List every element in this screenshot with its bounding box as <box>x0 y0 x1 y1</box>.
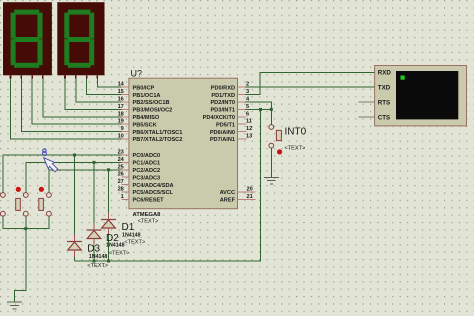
svg-text:1N4148: 1N4148 <box>122 233 141 239</box>
svg-text:21: 21 <box>247 194 253 200</box>
display pin stubs <box>11 75 98 78</box>
svg-text:28: 28 <box>118 187 124 193</box>
svg-text:25: 25 <box>118 164 124 170</box>
svg-text:PD5/T1: PD5/T1 <box>216 122 235 128</box>
right pin numbers <box>246 82 253 200</box>
terminal RTS stub <box>359 101 375 103</box>
svg-text:23: 23 <box>118 150 124 156</box>
svg-text:PD0/RXD: PD0/RXD <box>211 85 235 91</box>
svg-text:RTS: RTS <box>378 100 390 107</box>
svg-text:TXD: TXD <box>378 85 391 92</box>
svg-text:PD1/TXD: PD1/TXD <box>211 93 235 99</box>
svg-text:CTS: CTS <box>378 114 390 121</box>
wire D1 drop <box>108 170 110 213</box>
wire disp1 pin to PB7 <box>11 75 122 139</box>
svg-text:<TEXT>: <TEXT> <box>285 145 306 151</box>
junction node PD3/PD2 <box>270 108 273 111</box>
wire disp2 pin to PB1 <box>87 75 122 94</box>
svg-text:26: 26 <box>118 172 124 178</box>
junction node row25/D1 <box>107 168 110 171</box>
chip right pin stubs <box>238 87 256 199</box>
svg-text:<TEXT>: <TEXT> <box>124 240 145 246</box>
wire bottom rail to PD3 <box>75 109 261 261</box>
wire PC0 row to buttons <box>3 109 261 302</box>
svg-text:PC3/ADC3: PC3/ADC3 <box>133 175 161 181</box>
svg-text:PB7/XTAL2/TOSC2: PB7/XTAL2/TOSC2 <box>133 137 183 143</box>
svg-text:24: 24 <box>118 157 125 163</box>
svg-text:PB2/SS/OC1B: PB2/SS/OC1B <box>133 100 170 106</box>
diode D1 <box>101 213 116 235</box>
junction node row23/D3 <box>73 154 76 157</box>
svg-text:18: 18 <box>118 111 124 117</box>
svg-text:PD4/XCK/T0: PD4/XCK/T0 <box>203 115 235 121</box>
svg-text:<TEXT>: <TEXT> <box>87 263 108 269</box>
svg-text:PC5/ADC5/SCL: PC5/ADC5/SCL <box>133 190 174 196</box>
svg-text:D3: D3 <box>87 243 100 254</box>
wire to ground left <box>15 229 26 302</box>
button SW1 (partial, left edge) <box>1 193 6 217</box>
svg-text:PB6/XTAL1/TOSC1: PB6/XTAL1/TOSC1 <box>133 130 183 136</box>
terminal cursor <box>401 76 405 80</box>
svg-text:U?: U? <box>131 69 143 79</box>
wire disp2 pin to PB2 <box>76 75 122 102</box>
wire PD2 to button INT0 <box>245 102 271 125</box>
mouse cursor arrow <box>40 155 59 174</box>
junction node rail/D2 <box>93 260 96 263</box>
junction node PD3/rail <box>259 108 262 111</box>
svg-text:PB4/MISO: PB4/MISO <box>133 115 160 121</box>
button INT0 <box>269 125 282 155</box>
junction node row24/D2 <box>93 161 96 164</box>
button SW2 <box>16 187 29 216</box>
left pin numbers <box>118 82 125 200</box>
wire disp1 pin to PB5 <box>32 75 121 124</box>
svg-text:PD2/INT0: PD2/INT0 <box>210 100 235 106</box>
wire PD3 row <box>245 108 271 110</box>
svg-text:PB1/OC1A: PB1/OC1A <box>133 93 161 99</box>
chip left pin labels <box>133 85 183 203</box>
junction node rail/D1 <box>107 260 110 263</box>
wire disp1 pin to PB4 <box>43 75 122 117</box>
wire PC2 row <box>49 170 122 193</box>
svg-text:16: 16 <box>118 97 124 103</box>
svg-text:INT0: INT0 <box>285 126 307 137</box>
terminal CTS stub <box>359 116 375 118</box>
wire D2 bottom <box>93 245 95 261</box>
svg-text:27: 27 <box>118 179 124 185</box>
svg-text:<TEXT>: <TEXT> <box>109 251 130 257</box>
wire disp1 pin to PB6 <box>21 75 121 131</box>
svg-text:15: 15 <box>118 89 124 95</box>
junction node button join <box>24 227 27 230</box>
svg-text:1N4148: 1N4148 <box>89 254 108 260</box>
svg-text:PD3/INT1: PD3/INT1 <box>210 108 235 114</box>
svg-text:14: 14 <box>118 82 125 88</box>
wires from displays to chip port B <box>11 75 122 139</box>
cursor squiggle 8 <box>43 149 47 156</box>
svg-text:D1: D1 <box>122 222 135 233</box>
svg-text:ATMEGA8: ATMEGA8 <box>133 212 162 218</box>
svg-text:17: 17 <box>118 104 124 110</box>
7-segment display DISP2 <box>57 2 104 75</box>
wire D3 bottom <box>74 257 76 262</box>
svg-text:1: 1 <box>121 194 124 200</box>
svg-text:PB3/MOSI/OC2: PB3/MOSI/OC2 <box>133 108 173 114</box>
svg-text:<TEXT>: <TEXT> <box>138 218 159 224</box>
button SW3 <box>39 187 52 216</box>
svg-text:PC6/RESET: PC6/RESET <box>133 198 165 204</box>
ground (INT0) <box>264 177 279 184</box>
svg-text:RXD: RXD <box>378 70 392 77</box>
svg-text:6: 6 <box>246 111 249 117</box>
svg-text:19: 19 <box>118 119 124 125</box>
svg-text:13: 13 <box>246 134 252 140</box>
svg-text:10: 10 <box>118 134 124 140</box>
svg-text:PC4/ADC4/SDA: PC4/ADC4/SDA <box>133 183 174 189</box>
wire button INT0 to ground <box>270 148 272 177</box>
chip right pin labels <box>203 85 236 203</box>
svg-text:12: 12 <box>246 126 252 132</box>
wire D2 drop <box>93 162 95 223</box>
svg-text:20: 20 <box>247 187 253 193</box>
chip U? ATMEGA8 body <box>129 78 238 209</box>
wire D1 bottom <box>108 235 110 262</box>
svg-text:PB0/ICP: PB0/ICP <box>133 85 155 91</box>
svg-text:9: 9 <box>121 126 124 132</box>
terminal pin labels <box>378 70 392 122</box>
wire D3 drop <box>74 155 76 235</box>
chip left pin stubs <box>122 87 129 199</box>
virtual terminal <box>375 66 467 126</box>
wire disp2 pin to PB0 <box>97 75 121 87</box>
diode D2 <box>87 223 102 245</box>
svg-text:1N4148: 1N4148 <box>106 242 125 248</box>
svg-text:AVCC: AVCC <box>220 190 235 196</box>
svg-text:PC1/ADC1: PC1/ADC1 <box>133 161 161 167</box>
wire buttons bottom join <box>3 216 49 229</box>
svg-text:11: 11 <box>246 119 252 125</box>
wire PD1 to terminal RXD <box>245 72 375 94</box>
wire disp2 pin to PB3 <box>65 75 122 109</box>
svg-text:PD7/AIN1: PD7/AIN1 <box>210 137 235 143</box>
svg-text:PB5/SCK: PB5/SCK <box>133 122 157 128</box>
terminal screen <box>396 71 458 119</box>
svg-text:PC0/ADC0: PC0/ADC0 <box>133 153 161 159</box>
svg-text:AREF: AREF <box>220 198 236 204</box>
svg-text:PC2/ADC2: PC2/ADC2 <box>133 168 161 174</box>
diode D3 <box>67 235 82 257</box>
7-segment display DISP1 <box>3 2 52 75</box>
svg-text:PD6/AIN0: PD6/AIN0 <box>210 130 235 136</box>
wire PD0 to terminal TXD <box>245 72 375 177</box>
wire PC1 row <box>26 162 122 192</box>
ground (left) <box>7 302 22 309</box>
